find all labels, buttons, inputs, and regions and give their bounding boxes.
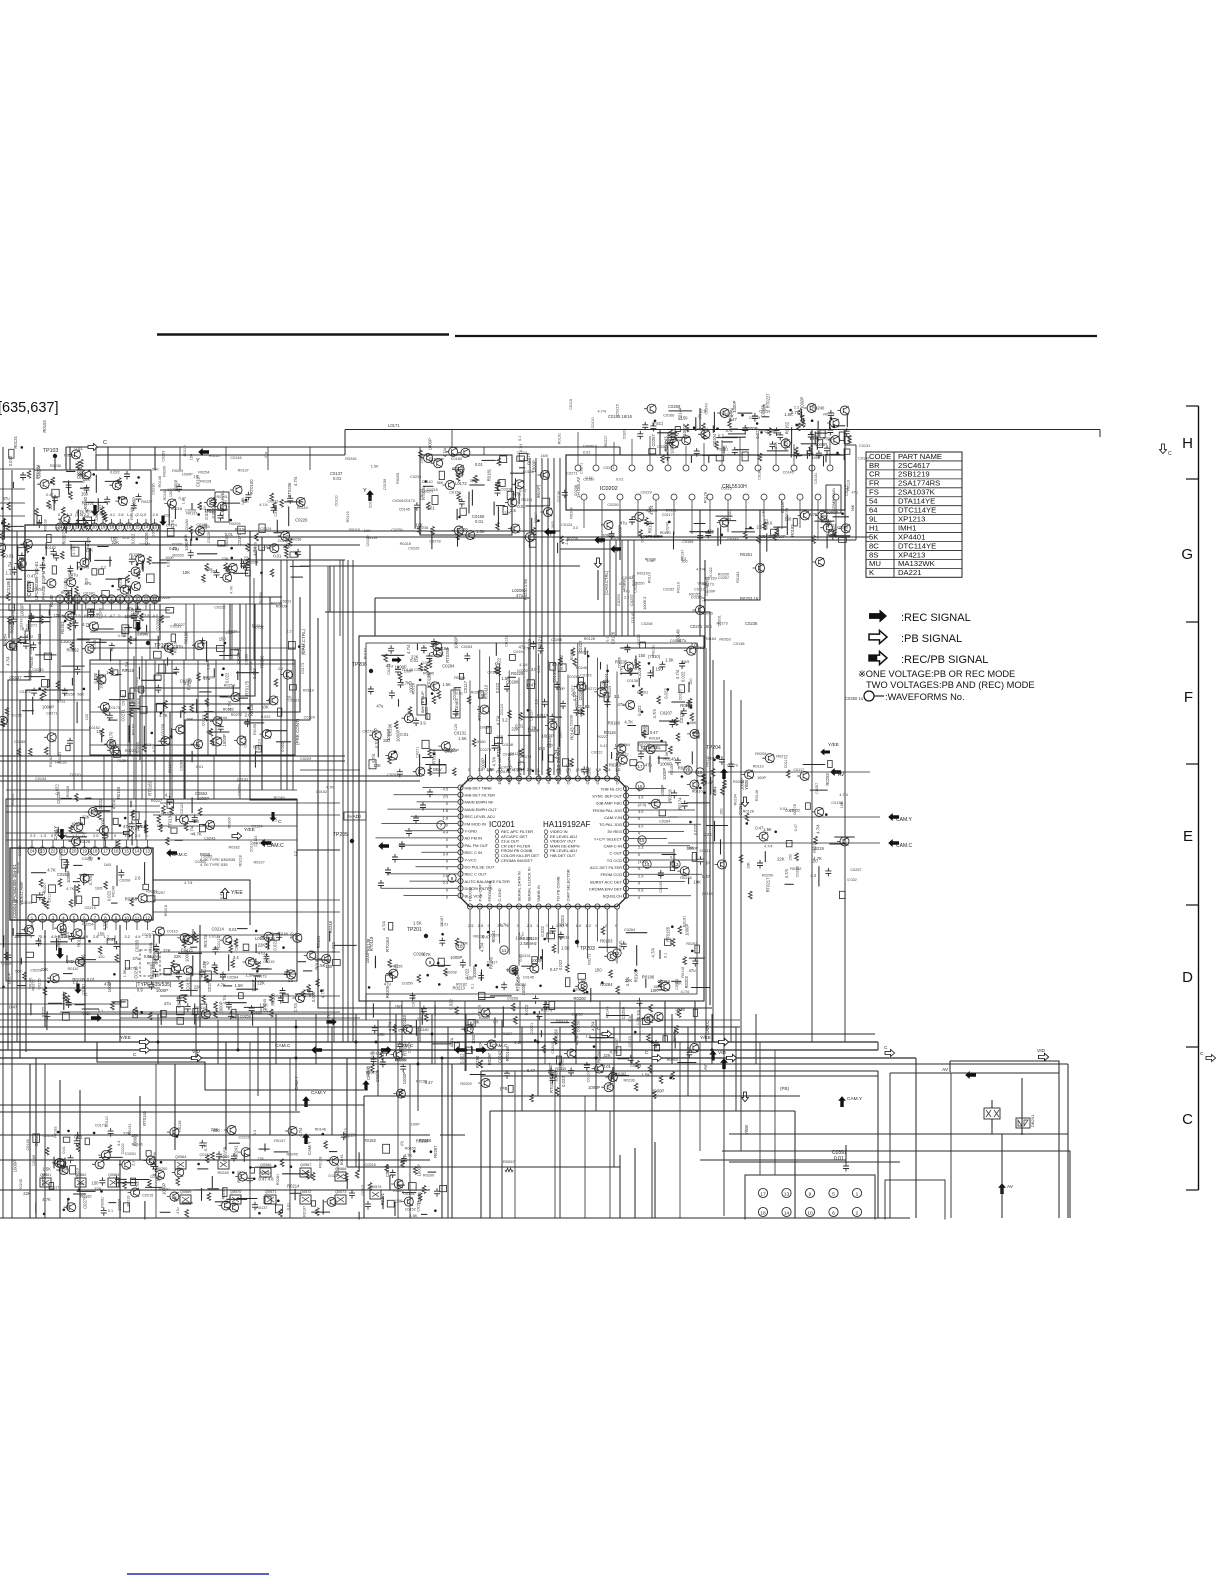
svg-text:C0236: C0236 xyxy=(225,535,229,546)
svg-text:Y/EE: Y/EE xyxy=(828,742,839,748)
wire xyxy=(555,716,562,718)
svg-text:(1.5): (1.5) xyxy=(75,512,84,517)
IC0202 pin bottom xyxy=(743,494,749,500)
svg-text:0.01: 0.01 xyxy=(427,506,436,511)
parts table row line xyxy=(866,523,962,525)
svg-text:C0166: C0166 xyxy=(663,413,674,417)
svg-text:3.3: 3.3 xyxy=(253,1130,257,1135)
svg-text:1.2: 1.2 xyxy=(586,923,591,928)
junction xyxy=(82,518,85,521)
IC0201 internal node CR DET FILTER xyxy=(495,844,499,848)
svg-text:DO PULSE OUT: DO PULSE OUT xyxy=(465,865,495,870)
svg-text:R0297: R0297 xyxy=(487,1052,492,1065)
wire xyxy=(478,996,495,998)
svg-text:20: 20 xyxy=(72,849,77,854)
svg-text:4.7/4: 4.7/4 xyxy=(519,663,527,667)
svg-text:22K: 22K xyxy=(511,727,519,732)
resistor R0705 xyxy=(497,668,501,676)
IC0204 pin 19 xyxy=(80,847,88,855)
wire xyxy=(75,1004,85,1006)
capacitor C0282 xyxy=(22,634,28,643)
svg-text:0.022: 0.022 xyxy=(460,1053,465,1064)
svg-text:C0110: C0110 xyxy=(569,399,573,410)
IC0204 pin stub up xyxy=(126,840,128,847)
part outline xyxy=(566,978,570,987)
wire pin stub xyxy=(538,909,540,959)
WHITE CLIP box xyxy=(417,685,426,715)
part outline xyxy=(102,591,110,598)
wire xyxy=(197,553,217,555)
part outline xyxy=(659,810,666,816)
svg-text:1000P: 1000P xyxy=(454,637,459,649)
IC0201 bottom pin 7 xyxy=(526,904,531,909)
svg-text:(CAM.CTRL): (CAM.CTRL) xyxy=(604,570,609,595)
resistor R0742 xyxy=(547,768,551,776)
svg-text:C0201: C0201 xyxy=(125,1152,136,1156)
wire stair from IC0102 xyxy=(65,447,67,470)
open arrow Y/EE down xyxy=(741,797,748,807)
wire xyxy=(77,959,96,961)
svg-text:C0152: C0152 xyxy=(663,588,674,592)
waveform number 16 xyxy=(636,782,644,790)
wire bus y531 xyxy=(0,530,560,532)
wire xyxy=(826,453,840,455)
transistor Q0651 xyxy=(390,1050,402,1059)
svg-text:FROM 9'(u): FROM 9'(u) xyxy=(487,880,492,901)
svg-text:R0209: R0209 xyxy=(755,752,766,756)
svg-text:1000P: 1000P xyxy=(427,438,432,450)
svg-text:0.1: 0.1 xyxy=(641,537,645,542)
svg-text:11: 11 xyxy=(502,948,507,953)
IC0201 top pin 13 xyxy=(585,776,590,781)
part outline xyxy=(579,678,584,685)
resistor R0180 xyxy=(101,507,105,515)
wire xyxy=(141,561,143,570)
svg-text:1000P: 1000P xyxy=(29,643,33,654)
wire vertical xyxy=(286,560,288,790)
svg-text:CR: CR xyxy=(869,470,881,479)
legend REC arrow xyxy=(869,609,887,622)
transistor Q0404 xyxy=(452,465,464,474)
svg-text:R0173: R0173 xyxy=(255,974,266,978)
svg-text:1000P: 1000P xyxy=(173,479,178,491)
svg-text:4.7/4: 4.7/4 xyxy=(764,844,772,848)
resistor R0539 xyxy=(758,453,762,461)
svg-text:C0175: C0175 xyxy=(186,977,191,990)
svg-text:C0257: C0257 xyxy=(815,783,819,794)
svg-text:10: 10 xyxy=(807,1210,813,1216)
svg-text:Y-VCC: Y-VCC xyxy=(465,857,477,862)
svg-text:C0138: C0138 xyxy=(369,497,373,508)
svg-text:C0264: C0264 xyxy=(227,976,238,980)
wire xyxy=(694,1001,696,1042)
arrow CAM.C up xyxy=(720,1058,728,1069)
transistor Q0251 xyxy=(753,564,765,573)
resistor R0736 xyxy=(69,825,73,833)
svg-text:C0284: C0284 xyxy=(442,663,455,668)
IC0202 pin stub xyxy=(727,500,729,532)
part outline xyxy=(132,812,139,820)
wire xyxy=(56,938,58,950)
IC0202 pin top xyxy=(647,465,653,471)
svg-text:R0110: R0110 xyxy=(68,967,79,971)
svg-text:1000P: 1000P xyxy=(185,950,190,962)
wire xyxy=(657,432,676,434)
svg-text:R0155: R0155 xyxy=(670,764,674,775)
svg-text:R0227: R0227 xyxy=(597,735,608,739)
svg-text:R0227: R0227 xyxy=(254,860,265,864)
arrow CAM.Y down xyxy=(58,829,66,840)
svg-text:R0146: R0146 xyxy=(112,886,116,897)
Fe ADJ box xyxy=(344,812,366,820)
svg-text:R0254: R0254 xyxy=(4,634,8,645)
svg-text:1000P: 1000P xyxy=(182,472,193,476)
transistor Q0657 xyxy=(592,1064,604,1073)
svg-text:C0215: C0215 xyxy=(85,906,96,910)
svg-text:R0165: R0165 xyxy=(634,969,639,982)
svg-text:0.47: 0.47 xyxy=(253,842,260,846)
IC0204 pin stub up xyxy=(63,840,65,847)
svg-text:C0124: C0124 xyxy=(166,524,177,528)
svg-text:R0110: R0110 xyxy=(196,1006,207,1010)
junction xyxy=(671,925,674,928)
wire xyxy=(318,618,712,1008)
capacitor C0728 xyxy=(568,1067,574,1076)
wire xyxy=(803,764,826,766)
resistor R0712 xyxy=(514,1016,518,1024)
svg-text:150: 150 xyxy=(653,985,659,989)
capacitor C0285 xyxy=(19,553,25,562)
IC0204 pin 5 xyxy=(70,914,78,922)
part outline xyxy=(459,673,463,679)
junction xyxy=(160,712,163,715)
svg-text:4.7K: 4.7K xyxy=(523,646,531,650)
transistor Q0341 xyxy=(210,717,222,726)
part outline xyxy=(654,1045,659,1051)
svg-text:R0227: R0227 xyxy=(151,799,162,803)
svg-text:C0110: C0110 xyxy=(70,773,81,777)
wire pin stub xyxy=(498,664,500,776)
svg-text:C0243: C0243 xyxy=(666,522,670,533)
svg-text:C0266: C0266 xyxy=(553,1028,558,1041)
svg-text:C0271: C0271 xyxy=(121,708,126,721)
svg-text:R0557: R0557 xyxy=(503,1159,516,1164)
svg-text:TP103: TP103 xyxy=(43,448,58,454)
svg-text:R0146: R0146 xyxy=(130,508,134,519)
junction xyxy=(118,496,121,499)
junction xyxy=(424,480,427,483)
parts table row line xyxy=(866,478,962,480)
capacitor C0717 xyxy=(372,1025,378,1034)
svg-text:4.4: 4.4 xyxy=(810,873,816,878)
transistor Q0225 xyxy=(3,641,15,650)
wire xyxy=(254,751,256,767)
wire xyxy=(729,1133,1068,1135)
svg-text:1.8: 1.8 xyxy=(762,511,766,516)
wire xyxy=(160,489,215,491)
svg-text:C0145: C0145 xyxy=(399,508,410,512)
wire xyxy=(531,518,533,533)
capacitor C0356 xyxy=(107,712,113,721)
junction xyxy=(38,687,41,690)
svg-text:R0245: R0245 xyxy=(11,794,15,805)
svg-text:C0117: C0117 xyxy=(463,680,468,693)
svg-text:C0278: C0278 xyxy=(362,730,373,734)
wire xyxy=(374,958,376,968)
svg-text:R0155: R0155 xyxy=(116,786,121,799)
transistor Q0596 xyxy=(762,754,774,763)
svg-text:2.2: 2.2 xyxy=(272,819,277,823)
junction xyxy=(532,770,535,773)
svg-text:Y/EE: Y/EE xyxy=(700,1035,711,1041)
svg-text:56K: 56K xyxy=(152,467,159,471)
transistor Q0210 xyxy=(86,622,98,631)
svg-text:R0191: R0191 xyxy=(128,1123,132,1134)
capacitor C0626 xyxy=(629,517,635,526)
svg-text:3.3: 3.3 xyxy=(573,526,578,530)
part outline xyxy=(140,707,147,714)
wire xyxy=(109,557,111,567)
resistor R0158 xyxy=(104,514,108,522)
svg-text:1.2: 1.2 xyxy=(125,833,130,838)
capacitor C0921 xyxy=(199,969,205,978)
svg-text:0.1: 0.1 xyxy=(518,436,522,441)
junction xyxy=(699,787,702,790)
part outline xyxy=(80,817,84,824)
svg-text:2.6: 2.6 xyxy=(443,873,448,878)
part outline xyxy=(143,884,149,889)
svg-text:C0215: C0215 xyxy=(569,675,580,679)
wire xyxy=(657,989,665,991)
test point TP101 xyxy=(146,641,150,645)
svg-text:0.47: 0.47 xyxy=(650,730,659,735)
margin tick xyxy=(1186,478,1199,480)
legend PB arrow xyxy=(869,630,887,643)
wire pin stub xyxy=(489,657,491,776)
IC0201 top pin 7 xyxy=(526,776,531,781)
svg-text:1.5K: 1.5K xyxy=(42,1167,51,1172)
svg-text:R0182: R0182 xyxy=(456,982,467,986)
capacitor C0675 xyxy=(686,700,692,709)
legend RECPB arrow xyxy=(869,651,887,664)
svg-text:C0250: C0250 xyxy=(18,845,22,856)
wire xyxy=(619,510,621,560)
svg-text:10K: 10K xyxy=(96,729,104,734)
wire xyxy=(259,968,272,970)
IC0102 pin 11 xyxy=(142,595,150,603)
IC0202 pin stub xyxy=(739,437,741,465)
svg-text:RT0236: RT0236 xyxy=(287,482,292,497)
svg-text:150: 150 xyxy=(156,824,162,828)
wire bus under delay xyxy=(566,539,856,541)
svg-text:0.01: 0.01 xyxy=(87,977,96,982)
IC0204 pin stub down xyxy=(147,921,149,930)
svg-text:R0200: R0200 xyxy=(762,873,773,877)
resistor R0820 xyxy=(179,981,183,989)
svg-text:1.5K: 1.5K xyxy=(561,946,570,951)
resistor R0824 xyxy=(302,990,306,998)
svg-text:FROM PAL JOG: FROM PAL JOG xyxy=(593,808,622,813)
svg-text:100/6.3: 100/6.3 xyxy=(642,596,647,610)
svg-text:100P: 100P xyxy=(757,776,766,780)
svg-text:C0264: C0264 xyxy=(195,860,206,864)
waveform number 7 xyxy=(437,821,445,829)
svg-text:9MHB IN: 9MHB IN xyxy=(536,885,541,901)
svg-text:4.7/4: 4.7/4 xyxy=(572,691,577,701)
capacitor C0475 xyxy=(459,498,465,507)
wire xyxy=(288,507,290,527)
svg-text:C0152: C0152 xyxy=(622,576,633,580)
svg-text:CAM.C: CAM.C xyxy=(267,843,284,849)
svg-text:C0131: C0131 xyxy=(454,731,467,736)
part outline xyxy=(460,508,466,515)
svg-text:C0173: C0173 xyxy=(19,690,30,694)
svg-text:H1: H1 xyxy=(869,523,879,532)
svg-text:R0209: R0209 xyxy=(161,812,172,816)
svg-text:4.8: 4.8 xyxy=(268,1176,274,1181)
part outline xyxy=(839,891,845,898)
svg-text:PHASE EQ/FM PEAK: PHASE EQ/FM PEAK xyxy=(41,558,46,600)
transistor Q0598 xyxy=(812,807,824,816)
wire pin stub xyxy=(422,851,458,853)
svg-text:R0218: R0218 xyxy=(43,519,47,530)
svg-text:0.022: 0.022 xyxy=(261,715,271,719)
resistor R0704 xyxy=(42,897,46,905)
svg-text:3V REG: 3V REG xyxy=(607,829,622,834)
part outline xyxy=(171,634,176,642)
IC0204 pin stub down xyxy=(126,921,128,930)
IC0204 pin stub up xyxy=(52,840,54,847)
svg-text:C0215: C0215 xyxy=(514,767,525,771)
svg-text:FR: FR xyxy=(869,479,880,488)
capacitor C0224 xyxy=(53,552,59,561)
svg-text:R0164: R0164 xyxy=(235,528,246,532)
resistor R0758 xyxy=(74,793,78,801)
svg-text:1.7: 1.7 xyxy=(72,833,77,838)
wire xyxy=(105,578,122,580)
part outline xyxy=(333,960,341,966)
IC0202 pin stub xyxy=(637,500,639,537)
IC0202 pin top xyxy=(809,465,815,471)
svg-text:AV: AV xyxy=(838,772,845,778)
wire xyxy=(423,485,434,487)
svg-text:C0208: C0208 xyxy=(119,879,130,883)
resistor R0691 xyxy=(739,855,743,863)
resistor R0380 xyxy=(43,688,47,696)
IC0102 pin stub xyxy=(119,519,121,524)
wire xyxy=(422,757,433,759)
wire xyxy=(510,472,525,474)
open arrow Y/EE xyxy=(140,1038,150,1045)
svg-text:R0173: R0173 xyxy=(203,935,208,948)
part outline xyxy=(693,1009,697,1016)
svg-text:100P: 100P xyxy=(165,556,174,560)
resistor R0383 xyxy=(100,729,104,737)
transistor Q0399 xyxy=(508,524,520,533)
IC0102 pin stub xyxy=(145,519,147,524)
wire xyxy=(111,1001,125,1003)
svg-text:D: D xyxy=(1182,969,1193,986)
svg-text:R0182: R0182 xyxy=(80,1195,91,1199)
svg-text:0.01: 0.01 xyxy=(720,412,729,417)
svg-text:R0272: R0272 xyxy=(823,413,834,417)
svg-text:0.1: 0.1 xyxy=(605,637,609,642)
wire bus xyxy=(0,1026,740,1028)
svg-text:1.8: 1.8 xyxy=(595,767,600,772)
svg-text:R0200: R0200 xyxy=(718,573,729,577)
resistor R0774 xyxy=(671,1072,675,1080)
svg-text:C0110: C0110 xyxy=(38,935,42,946)
resistor R0636 xyxy=(472,739,476,747)
svg-text:Q0561: Q0561 xyxy=(40,1173,51,1177)
svg-text:C0271: C0271 xyxy=(517,451,528,455)
IC0202 pin stub xyxy=(685,446,687,465)
EE LEVEL box xyxy=(638,742,666,751)
resistor R0797 xyxy=(214,1010,218,1018)
part outline xyxy=(640,642,646,648)
capacitor C0785 xyxy=(692,958,698,967)
svg-text:0.01: 0.01 xyxy=(169,546,178,551)
svg-text:47u: 47u xyxy=(258,951,266,956)
part outline xyxy=(167,800,174,808)
IC0201 top pin 8 xyxy=(536,776,541,781)
svg-text:C0215: C0215 xyxy=(142,1194,153,1198)
wire bus end hook xyxy=(877,1042,879,1050)
transistor Q0711 xyxy=(72,957,84,966)
transistor Q0469 xyxy=(632,512,644,521)
svg-text:1.3: 1.3 xyxy=(67,512,72,517)
transistor Q0458 xyxy=(717,518,729,527)
svg-text:R0263: R0263 xyxy=(173,554,184,558)
svg-text:4.4: 4.4 xyxy=(443,830,449,835)
resistor R0280 xyxy=(7,593,11,601)
svg-text:TP203: TP203 xyxy=(580,946,595,952)
svg-text:C0215: C0215 xyxy=(365,1163,376,1167)
wire xyxy=(284,501,303,503)
IC0102 pin 18 xyxy=(108,523,116,531)
resistor R0359 xyxy=(274,679,278,687)
capacitor C0716 xyxy=(504,1070,510,1079)
svg-text:0.022: 0.022 xyxy=(82,473,86,483)
svg-text:C0229: C0229 xyxy=(161,451,165,462)
wire xyxy=(110,649,112,662)
svg-text:FROM CCD: FROM CCD xyxy=(600,872,622,877)
wire xyxy=(364,1095,800,1097)
svg-text:23: 23 xyxy=(66,525,71,530)
wire xyxy=(116,865,118,886)
open arrow Y/EE up xyxy=(221,888,228,898)
svg-text:4.7/4: 4.7/4 xyxy=(259,503,267,507)
part outline xyxy=(199,824,205,831)
transistor Q0693 xyxy=(54,924,66,933)
svg-text:150: 150 xyxy=(380,1051,384,1057)
svg-text:4.7/4: 4.7/4 xyxy=(598,410,606,414)
svg-text:4.7/4: 4.7/4 xyxy=(203,1141,208,1151)
svg-text:4.7/4: 4.7/4 xyxy=(590,1021,595,1031)
part outline xyxy=(157,703,164,712)
wire xyxy=(1021,1078,1023,1135)
svg-text:R0218: R0218 xyxy=(164,905,168,916)
wire xyxy=(434,1006,436,1016)
svg-text:R0272: R0272 xyxy=(813,841,817,852)
svg-text:C: C xyxy=(278,819,282,825)
wire xyxy=(191,797,193,813)
wire xyxy=(794,1111,796,1218)
transistor Q0545 xyxy=(430,648,442,657)
IC0204 pin stub down xyxy=(31,921,33,930)
svg-text:C0145: C0145 xyxy=(230,456,241,460)
IC0204 pin 1 xyxy=(28,914,36,922)
